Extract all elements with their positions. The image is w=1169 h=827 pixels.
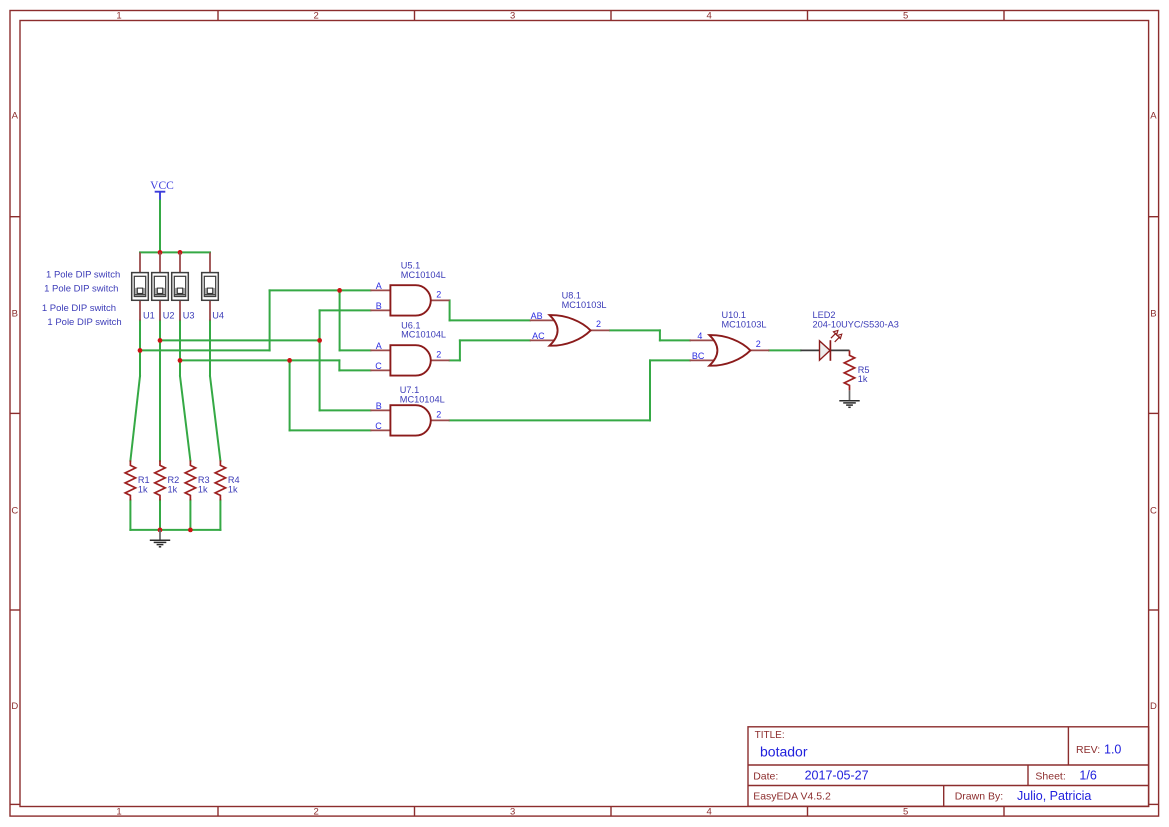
wire U6 C in [339, 369, 370, 371]
wire net C elbow v [338, 360, 340, 370]
svg-text:B: B [376, 401, 382, 411]
wire U1 diag [130, 376, 140, 461]
wire U6 A in [340, 349, 371, 351]
svg-text:Date:: Date: [753, 771, 778, 783]
svg-text:1: 1 [116, 11, 121, 22]
svg-text:BC: BC [692, 351, 705, 361]
svg-text:1k: 1k [198, 484, 208, 494]
svg-text:3: 3 [510, 11, 515, 22]
svg-text:B: B [376, 301, 382, 311]
svg-text:Sheet:: Sheet: [1035, 771, 1065, 783]
svg-text:A: A [376, 341, 382, 351]
wire VCC drop [159, 201, 161, 253]
wire U7 out h [450, 419, 650, 421]
node B tap [158, 338, 163, 343]
svg-text:1 Pole DIP switch: 1 Pole DIP switch [46, 269, 120, 280]
svg-text:2: 2 [314, 11, 319, 22]
svg-text:2017-05-27: 2017-05-27 [805, 769, 869, 783]
wire U1 down [139, 321, 141, 377]
svg-text:Drawn By:: Drawn By: [955, 791, 1003, 803]
op-amp U5.1 AND gate [370, 260, 449, 315]
wire R3 gnd [189, 500, 191, 530]
wire U5 B in [320, 309, 371, 311]
svg-text:1: 1 [116, 807, 121, 818]
wire U2 down [159, 321, 161, 461]
svg-text:5: 5 [903, 11, 908, 22]
node gnd bus [158, 528, 163, 533]
wire U5 out v [449, 300, 451, 320]
svg-text:REV:: REV: [1076, 744, 1100, 756]
op-amp U7.1 AND gate [370, 385, 449, 435]
svg-text:C: C [375, 361, 382, 371]
wire net A h [140, 349, 270, 351]
wire net B vert [319, 310, 321, 410]
wire U8 out h [610, 329, 660, 331]
svg-text:4: 4 [707, 807, 712, 818]
switch U1 [132, 252, 155, 320]
node A tap [138, 348, 143, 353]
node R3 bus [188, 528, 193, 533]
wire net A drop [339, 290, 341, 350]
wire U6 out h [450, 359, 460, 361]
svg-text:2: 2 [436, 410, 441, 420]
resistor R2 [155, 460, 179, 500]
svg-text:4: 4 [707, 11, 712, 22]
wire U3 diag [180, 376, 190, 461]
node VCC bus [158, 250, 163, 255]
wire AC [460, 339, 530, 341]
wire net B h [160, 339, 320, 341]
svg-text:D: D [11, 701, 18, 712]
svg-text:3: 3 [510, 807, 515, 818]
svg-text:1k: 1k [858, 374, 868, 384]
svg-text:D: D [1150, 701, 1157, 712]
switch U4 [202, 252, 224, 320]
svg-text:U3: U3 [183, 310, 195, 320]
svg-text:1k: 1k [138, 484, 148, 494]
svg-text:AB: AB [531, 311, 543, 321]
svg-text:1 Pole DIP switch: 1 Pole DIP switch [47, 317, 121, 328]
svg-text:4: 4 [697, 331, 702, 341]
wire R4 gnd [219, 500, 221, 530]
svg-text:2: 2 [756, 339, 761, 349]
wire U8 out v [659, 330, 661, 340]
op-amp U8.1 OR gate [530, 291, 610, 346]
svg-text:TITLE:: TITLE: [755, 730, 785, 741]
ground GND1 [150, 530, 170, 547]
wire net C h [180, 359, 339, 361]
svg-text:B: B [1150, 308, 1156, 319]
power flag VCC [150, 180, 174, 201]
wire U5 A in [270, 289, 371, 291]
svg-text:botador: botador [760, 743, 808, 759]
svg-text:U1: U1 [143, 310, 155, 320]
wire U6 out v [459, 340, 461, 360]
svg-text:U4: U4 [212, 310, 224, 320]
wire net A riser [269, 290, 271, 350]
wire net C drop [289, 360, 291, 430]
svg-text:1k: 1k [228, 484, 238, 494]
wire AB [450, 319, 530, 321]
switch U2 [152, 252, 175, 320]
svg-text:1.0: 1.0 [1104, 743, 1121, 757]
wire U3 down [179, 321, 181, 377]
svg-text:MC10104L: MC10104L [401, 330, 446, 340]
node C join [287, 358, 292, 363]
wire R1 gnd [129, 500, 131, 530]
diode LED2 [800, 310, 898, 361]
node C tap [178, 358, 183, 363]
title block [748, 727, 1149, 807]
svg-text:1k: 1k [168, 484, 178, 494]
wire U7 B in [320, 409, 371, 411]
resistor R1 [125, 460, 149, 500]
svg-text:B: B [12, 308, 18, 319]
node B join [317, 338, 322, 343]
svg-text:C: C [1150, 505, 1157, 516]
svg-text:AC: AC [532, 331, 545, 341]
svg-text:5: 5 [903, 807, 908, 818]
svg-text:204-10UYC/S530-A3: 204-10UYC/S530-A3 [813, 320, 899, 330]
switch U3 [172, 252, 195, 320]
svg-text:VCC: VCC [150, 180, 174, 192]
node A join [337, 288, 342, 293]
svg-text:2: 2 [436, 290, 441, 300]
wire BC vert [649, 360, 651, 420]
op-amp U6.1 AND gate [370, 320, 449, 375]
op-amp U10.1 OR gate [690, 310, 770, 366]
svg-text:A: A [376, 281, 382, 291]
wire top bus [140, 251, 210, 253]
svg-text:1 Pole DIP switch: 1 Pole DIP switch [42, 303, 116, 314]
svg-text:2: 2 [596, 319, 601, 329]
wire U10 in4 [660, 339, 690, 341]
svg-text:MC10103L: MC10103L [722, 320, 767, 330]
resistor R5 [844, 350, 869, 390]
svg-text:C: C [11, 505, 18, 516]
svg-text:A: A [12, 110, 19, 121]
svg-text:EasyEDA V4.5.2: EasyEDA V4.5.2 [753, 791, 831, 803]
wire U4 down [209, 321, 211, 377]
wire bottom bus [130, 529, 220, 531]
svg-text:Julio, Patricia: Julio, Patricia [1017, 789, 1091, 803]
svg-text:MC10104L: MC10104L [400, 395, 445, 405]
svg-text:2: 2 [314, 807, 319, 818]
svg-text:MC10104L: MC10104L [401, 270, 446, 280]
svg-text:MC10103L: MC10103L [562, 300, 607, 310]
resistor R3 [185, 460, 209, 500]
wire R2 gnd [159, 500, 161, 530]
svg-text:2: 2 [436, 350, 441, 360]
wire U10 inBC [650, 359, 690, 361]
svg-text:A: A [1150, 110, 1157, 121]
svg-text:C: C [375, 421, 382, 431]
svg-text:1/6: 1/6 [1079, 769, 1096, 783]
wire U10 out [769, 349, 800, 351]
wire U4 diag [210, 376, 220, 461]
resistor R4 [215, 460, 239, 500]
node bus U3 [178, 250, 183, 255]
svg-text:1 Pole DIP switch: 1 Pole DIP switch [44, 283, 118, 294]
svg-text:U2: U2 [163, 310, 175, 320]
ground GND2 [839, 390, 859, 407]
wire U7 C in [290, 429, 371, 431]
